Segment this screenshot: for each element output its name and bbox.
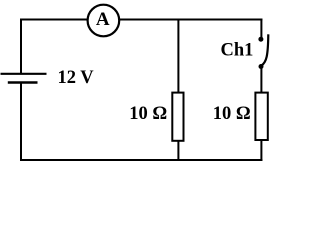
svg-text:10 Ω: 10 Ω [213,104,251,124]
battery V1 positive plate (long) [1,73,47,75]
switch Ch1 upper terminal dot [258,37,263,42]
wire left vertical upper (top rail down to battery +) [20,19,22,75]
resistor R1 body (middle branch) [172,93,183,141]
wire middle branch vertical lower (R1 to bottom rail) [177,141,179,160]
switch Ch1 lever (open blade) [262,34,269,65]
wire bottom rail [20,159,262,161]
svg-text:Ch1: Ch1 [221,41,254,61]
switch Ch1 lower terminal dot [259,64,264,69]
wire top rail left segment (battery + to ammeter) [20,19,89,21]
resistor R2 body (right branch) [255,93,267,140]
svg-text:10 Ω: 10 Ω [129,104,167,124]
battery V1 negative plate (short) [8,81,38,83]
wire right branch vertical middle (switch to R2) [260,67,262,94]
svg-text:A: A [96,9,110,30]
wire top rail right segment (ammeter to top-right corner) [118,19,262,21]
wire middle branch vertical upper (top rail junction down to R1) [177,19,179,94]
ammeter A1 circle [88,5,120,37]
wire right branch vertical upper (top-right corner to switch) [260,19,262,39]
wire right branch vertical lower (R2 to bottom rail) [260,140,262,161]
svg-text:12 V: 12 V [58,68,95,88]
wire left vertical lower (battery - down to bottom rail) [20,84,22,162]
